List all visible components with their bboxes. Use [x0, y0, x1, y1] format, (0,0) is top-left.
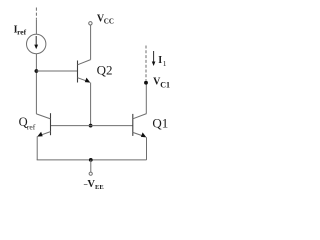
transistor Q1 base bar [132, 114, 134, 136]
node B junction dot on base rail [89, 124, 93, 128]
transistor Qref base bar [50, 113, 52, 135]
wire: Q1 collector up to VC1 node [145, 83, 147, 114]
wire: node A to Q2 base [36, 70, 77, 72]
node A junction dot [35, 69, 39, 73]
svg-text:1: 1 [163, 59, 167, 68]
wire: dashed line above VC1 [145, 46, 147, 81]
wire: Q1 emitter down to bottom rail [146, 137, 148, 160]
wire: stub from rail down to VEE terminal [90, 160, 92, 172]
wire: Qref emitter down to bottom rail [36, 136, 38, 160]
transistor Qref emitter diagonal with arrow [39, 132, 51, 136]
wire: Q2 emitter down to base rail [90, 83, 92, 126]
current source arrow (downward) [35, 36, 37, 46]
wire: solid lead from dashes to current source top [35, 20, 37, 35]
current source I_ref circle [27, 34, 46, 53]
wire: Q2 collector up to VCC terminal [90, 25, 92, 60]
VEE junction dot [89, 158, 93, 162]
svg-text:ref: ref [17, 27, 27, 36]
transistor Q2 emitter diagonal with arrow [78, 78, 89, 82]
svg-text:I: I [158, 55, 162, 66]
transistor Q2 collector diagonal [78, 60, 91, 65]
wire: base rail from Qref base to Q1 base [51, 125, 133, 127]
VC1 node dot [144, 81, 148, 85]
transistor Q2 base bar [77, 61, 79, 83]
svg-text:ref: ref [27, 123, 36, 132]
transistor Q1 collector diagonal [133, 114, 147, 119]
svg-text:EE: EE [95, 184, 104, 191]
current I1 arrow [153, 51, 155, 62]
svg-text:C1: C1 [160, 81, 170, 90]
svg-text:CC: CC [104, 17, 114, 25]
svg-text:Q2: Q2 [97, 62, 113, 77]
wire: bottom rail (-VEE rail) [37, 159, 147, 161]
VCC terminal open circle [89, 22, 92, 25]
VEE terminal open circle [89, 172, 92, 175]
wire: current source bottom to node A and down to Qref collector elbow [35, 54, 37, 114]
transistor Q1 emitter diagonal with arrow [133, 132, 145, 136]
wire: dashed lead above I_ref source [35, 8, 37, 20]
transistor Qref collector diagonal [36, 114, 50, 119]
svg-text:Q1: Q1 [152, 116, 168, 131]
